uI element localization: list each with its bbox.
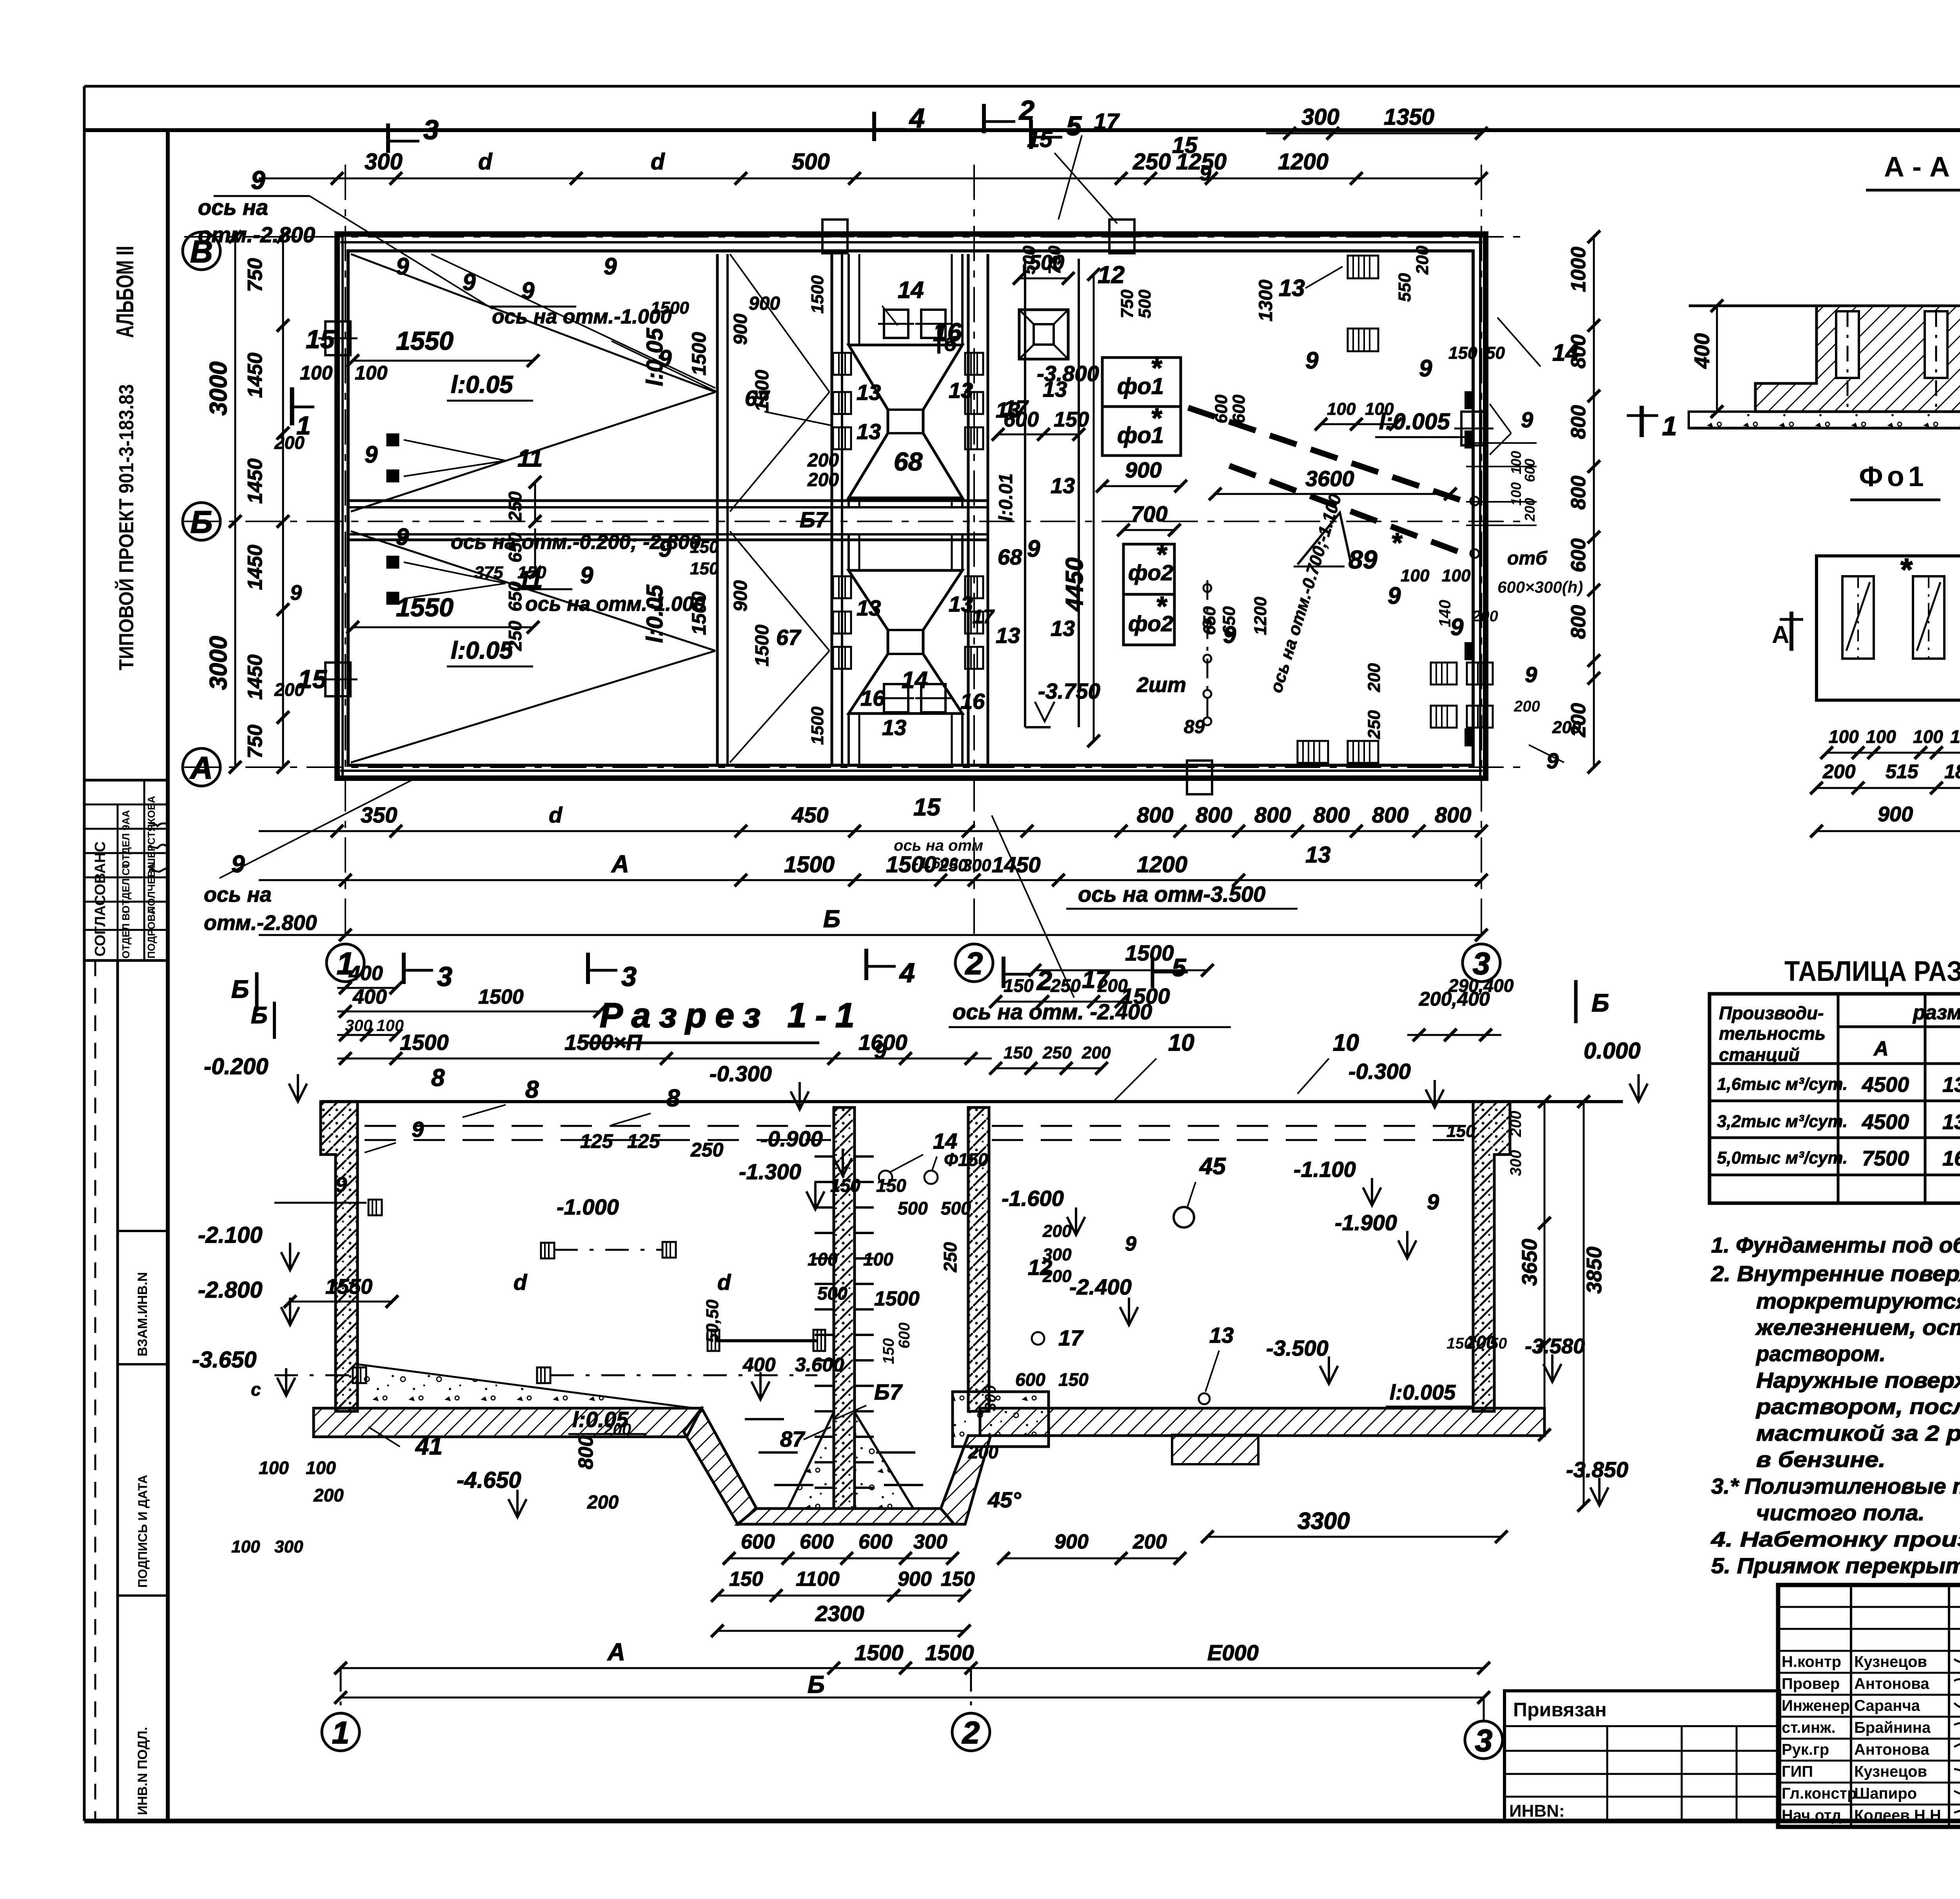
svg-text:13: 13 [1051, 616, 1075, 641]
svg-text:9: 9 [335, 1173, 347, 1196]
svg-text:1000: 1000 [1567, 247, 1590, 292]
svg-text:1500: 1500 [478, 986, 524, 1008]
detail Fo1 body [1817, 556, 1960, 700]
plan middle wall axis B [348, 499, 988, 502]
svg-text:1600: 1600 [858, 1030, 907, 1055]
svg-text:650: 650 [1220, 606, 1239, 635]
sheet top border line 1 [84, 85, 1960, 88]
svg-text:1500×П: 1500×П [564, 1030, 642, 1055]
svg-text:600: 600 [1522, 459, 1538, 482]
svg-text:600: 600 [741, 1530, 775, 1553]
svg-text:ПОДПИСЬ И ДАТА: ПОДПИСЬ И ДАТА [136, 1475, 150, 1588]
plan funnel inner verticals [858, 254, 860, 345]
svg-text:1500: 1500 [925, 1640, 974, 1665]
svg-text:150: 150 [941, 1568, 975, 1590]
svg-text:1500: 1500 [886, 852, 936, 877]
svg-text:13: 13 [1209, 1323, 1234, 1347]
svg-text:200: 200 [1132, 1530, 1167, 1553]
svg-text:Нач.отд: Нач.отд [1782, 1807, 1841, 1824]
svg-text:13: 13 [1279, 275, 1305, 301]
svg-text:7500: 7500 [1862, 1147, 1909, 1170]
svg-text:1500: 1500 [1121, 984, 1170, 1008]
svg-text:200: 200 [1042, 1267, 1072, 1286]
privyazan strip [1504, 1691, 1780, 1821]
svg-text:Б: Б [808, 1671, 825, 1698]
svg-text:ст.инж.: ст.инж. [1782, 1719, 1836, 1736]
svg-text:4450: 4450 [1061, 557, 1088, 612]
svg-text:250: 250 [940, 1242, 960, 1273]
svg-text:13500: 13500 [1942, 1110, 1960, 1134]
plan 250 650 vertical chain [534, 482, 536, 521]
svg-text:8: 8 [431, 1064, 445, 1091]
svg-text:200: 200 [587, 1492, 619, 1513]
svg-text:67: 67 [776, 625, 802, 650]
svg-text:89: 89 [1184, 717, 1205, 737]
svg-text:600: 600 [896, 1322, 913, 1349]
svg-text:9: 9 [521, 278, 535, 304]
svg-text:200: 200 [1097, 975, 1128, 996]
title block left grid verticals [1850, 1585, 1852, 1827]
svg-text:900: 900 [1125, 458, 1161, 482]
section central wall hatched [834, 1107, 855, 1509]
svg-text:*: * [1151, 403, 1162, 433]
svg-text:150: 150 [1058, 1369, 1089, 1390]
svg-text:16: 16 [860, 686, 885, 710]
svg-text:900: 900 [730, 314, 751, 345]
svg-text:550: 550 [1395, 273, 1414, 302]
plan axis line 3 vertical [1481, 165, 1482, 944]
svg-text:1450: 1450 [244, 654, 267, 700]
svg-text:ОТДЕЛ ВГ: ОТДЕЛ ВГ [120, 907, 132, 959]
svg-text:14: 14 [1552, 339, 1579, 366]
plan wall band inner emphasis lines [341, 235, 344, 777]
svg-text:Е000: Е000 [1207, 1640, 1259, 1665]
plan small squares 11 lower [387, 557, 398, 568]
svg-text:торкретируются на толщину 25мм: торкретируются на толщину 25мм, за два р… [1756, 1289, 1960, 1313]
plan outer wall rectangle [337, 234, 1486, 778]
svg-text:1500: 1500 [808, 275, 827, 314]
svg-text:11: 11 [517, 445, 543, 472]
svg-text:13: 13 [949, 592, 973, 616]
svg-text:Фо1: Фо1 [1859, 461, 1927, 492]
svg-text:100: 100 [1913, 726, 1943, 747]
plan right side dim chain 800s [1593, 237, 1595, 767]
svg-text:50: 50 [1490, 1335, 1507, 1352]
svg-text:5. Приямок перекрыть щитом (по: 5. Приямок перекрыть щитом (поз. 18). [1711, 1553, 1960, 1578]
svg-text:150: 150 [729, 1568, 763, 1590]
svg-text:ПОДРОВА: ПОДРОВА [145, 907, 157, 959]
svg-text:200: 200 [603, 1420, 631, 1438]
svg-text:-3.580: -3.580 [1525, 1334, 1585, 1358]
svg-text:Колеев Н.Н: Колеев Н.Н [1854, 1807, 1941, 1824]
svg-text:3300: 3300 [1298, 1508, 1350, 1534]
svg-text:150: 150 [1446, 1335, 1473, 1352]
svg-text:чистого пола.: чистого пола. [1756, 1500, 1925, 1525]
svg-text:13: 13 [857, 595, 881, 620]
plan dim 1550 lower room [353, 626, 533, 628]
svg-text:16: 16 [933, 318, 962, 347]
svg-text:Провер: Провер [1782, 1675, 1840, 1692]
svg-text:4: 4 [899, 957, 915, 988]
svg-text:750: 750 [1045, 245, 1064, 274]
plan internal wall x1830 [716, 254, 719, 764]
svg-text:0.000: 0.000 [1584, 1038, 1641, 1064]
svg-text:1550: 1550 [325, 1275, 372, 1298]
svg-text:1550: 1550 [396, 326, 454, 355]
svg-text:1500: 1500 [784, 852, 835, 877]
svg-text:4. Набетонку производить после: 4. Набетонку производить после монтажа с… [1711, 1528, 1960, 1551]
svg-text:1450: 1450 [992, 852, 1041, 877]
plan axis line B horizontal [184, 521, 1529, 522]
plan dashed pipe run 89 line 2 [1229, 466, 1463, 554]
svg-text:800: 800 [1435, 802, 1471, 827]
svg-text:185: 185 [1944, 761, 1960, 782]
svg-text:100: 100 [306, 1458, 336, 1478]
svg-text:1: 1 [332, 1715, 350, 1750]
plan internal wall axis2 x2470 [967, 254, 970, 764]
svg-text:Б: Б [191, 505, 213, 539]
svg-text:-0.300: -0.300 [710, 1061, 772, 1086]
svg-text:100: 100 [300, 362, 333, 384]
svg-text:800: 800 [1372, 802, 1408, 827]
plan section flag b at funnel [937, 326, 940, 354]
svg-text:9: 9 [580, 562, 593, 588]
svg-text:450: 450 [791, 802, 828, 827]
svg-text:200: 200 [1042, 1222, 1072, 1241]
svg-text:13500: 13500 [1942, 1073, 1960, 1097]
svg-text:900: 900 [1054, 1530, 1089, 1553]
svg-text:13: 13 [857, 419, 881, 444]
plan section cut mark 1 left [290, 387, 294, 425]
plan upper funnel hopper [849, 345, 962, 498]
svg-text:100: 100 [1866, 726, 1896, 747]
plan upper room slope diagonals [351, 254, 715, 392]
svg-text:9: 9 [1200, 162, 1211, 185]
plan vertical dim 4450 inside right room [1093, 274, 1095, 741]
svg-text:12: 12 [1098, 261, 1125, 289]
plan lower funnel hopper [849, 570, 962, 713]
svg-text:4500: 4500 [1862, 1073, 1909, 1097]
plan bottom dim chain row3 [259, 934, 1481, 936]
sidebar approval signatures [149, 823, 166, 826]
plan bottom section marks [402, 953, 406, 984]
svg-text:1350: 1350 [1384, 104, 1434, 130]
svg-text:фо2: фо2 [1128, 560, 1173, 585]
svg-text:13: 13 [996, 623, 1020, 648]
svg-text:1500: 1500 [651, 298, 689, 318]
svg-text:1500: 1500 [808, 706, 827, 745]
svg-text:1500: 1500 [1125, 940, 1174, 965]
svg-text:200: 200 [1365, 663, 1384, 692]
svg-text:100: 100 [863, 1249, 893, 1269]
section floor slab right band [980, 1408, 1544, 1436]
svg-text:l:0.05: l:0.05 [451, 371, 514, 398]
svg-text:750: 750 [1118, 289, 1137, 318]
svg-text:9: 9 [604, 253, 617, 280]
section bolt left pair [368, 1200, 382, 1215]
plan inner wall face rectangle [348, 251, 1473, 765]
svg-text:290,400: 290,400 [1448, 975, 1514, 996]
svg-text:в бензине.: в бензине. [1756, 1447, 1886, 1472]
svg-text:ИНВ.N ПОДЛ.: ИНВ.N ПОДЛ. [135, 1727, 150, 1815]
svg-text:1500: 1500 [752, 625, 773, 666]
svg-text:ВЗАМ.ИНВ.N: ВЗАМ.ИНВ.N [135, 1272, 150, 1356]
svg-text:8: 8 [666, 1085, 680, 1112]
svg-text:А: А [1873, 1037, 1889, 1060]
svg-text:9: 9 [1525, 662, 1537, 687]
svg-text:9: 9 [1125, 1233, 1136, 1255]
svg-text:3: 3 [1475, 1723, 1493, 1758]
svg-text:тельность: тельность [1719, 1023, 1826, 1044]
svg-text:1450: 1450 [244, 458, 267, 504]
sheet outer border left [83, 86, 86, 1821]
svg-text:9: 9 [290, 581, 302, 605]
svg-text:9: 9 [1027, 536, 1040, 562]
svg-text:700: 700 [1131, 501, 1167, 526]
svg-text:350: 350 [361, 802, 397, 827]
svg-text:200: 200 [1413, 245, 1432, 275]
svg-text:-1.300: -1.300 [739, 1159, 801, 1184]
svg-text:140: 140 [1436, 600, 1454, 627]
section top dim chain [337, 1058, 992, 1060]
svg-text:*: * [1391, 527, 1403, 558]
svg-text:-2.100: -2.100 [198, 1222, 262, 1248]
svg-text:200: 200 [1514, 698, 1540, 715]
svg-text:9: 9 [1427, 1189, 1439, 1214]
svg-text:Н.контр: Н.контр [1782, 1653, 1841, 1670]
svg-text:-1.000: -1.000 [557, 1195, 619, 1219]
plan wall clamp elements 15 [325, 321, 350, 355]
svg-text:А: А [611, 851, 629, 878]
svg-text:раствором, после чего окрашива: раствором, после чего окрашиваются горяч… [1755, 1394, 1960, 1419]
svg-text:3000: 3000 [205, 636, 232, 690]
svg-text:9: 9 [231, 851, 245, 878]
svg-text:Б7: Б7 [800, 507, 829, 532]
section pit right slope [941, 1436, 991, 1524]
svg-text:13: 13 [857, 380, 881, 405]
svg-text:600×300(h): 600×300(h) [1497, 578, 1583, 596]
plan funnel clamps 14 [884, 310, 908, 338]
svg-text:600: 600 [1567, 538, 1590, 572]
plan foundation Fo1 rectangles [1102, 358, 1181, 407]
svg-text:67: 67 [745, 386, 770, 410]
svg-text:13: 13 [882, 715, 906, 740]
svg-text:*: * [1151, 352, 1162, 383]
section bolt mid [541, 1243, 554, 1258]
svg-text:отб: отб [1507, 548, 1548, 569]
svg-text:3.* Полиэтиленовые трубы (поз.: 3.* Полиэтиленовые трубы (поз. 89) залож… [1711, 1474, 1960, 1498]
detail Fo1 slot right [1913, 576, 1944, 659]
svg-text:300: 300 [274, 1537, 303, 1556]
title block left grid horizontals [1778, 1606, 1960, 1608]
svg-text:железнением, остальные затираю: железнением, остальные затираются цемент… [1755, 1315, 1960, 1340]
svg-text:АЛЬБОМ II: АЛЬБОМ II [112, 246, 139, 338]
svg-text:500: 500 [817, 1283, 848, 1304]
svg-text:1100: 1100 [796, 1568, 840, 1590]
detail Fo1 slot left [1842, 576, 1874, 659]
svg-text:-4.650: -4.650 [457, 1467, 521, 1493]
svg-text:250: 250 [1132, 149, 1171, 174]
svg-text:*: * [1899, 552, 1913, 587]
svg-text:ось на: ось на [204, 883, 272, 906]
svg-text:800: 800 [1567, 405, 1590, 439]
svg-text:Привязан: Привязан [1513, 1699, 1607, 1721]
svg-text:5,0тыс м³/сут.: 5,0тыс м³/сут. [1717, 1148, 1847, 1167]
plan top section marks [386, 123, 390, 153]
svg-text:200: 200 [968, 1442, 998, 1462]
plan top dimension chain right [1266, 133, 1481, 134]
detail A-A anchor slot 2 [1925, 311, 1947, 378]
svg-text:9: 9 [251, 165, 265, 194]
section axis2 wall hatched [968, 1107, 989, 1411]
svg-text:2: 2 [962, 1715, 980, 1750]
svg-text:150: 150 [1446, 1122, 1475, 1141]
svg-text:1: 1 [1662, 411, 1677, 441]
plan left dim chain 3000 [234, 237, 236, 767]
svg-text:17: 17 [1094, 109, 1120, 134]
section right wall hatched [1473, 1102, 1510, 1411]
svg-text:с: с [251, 1379, 261, 1400]
svg-text:Саранча: Саранча [1854, 1697, 1920, 1714]
svg-text:3: 3 [621, 961, 637, 992]
svg-text:станций: станций [1719, 1044, 1800, 1065]
plan axis circle V [183, 232, 220, 270]
svg-text:500: 500 [792, 149, 830, 174]
svg-text:9: 9 [1521, 407, 1533, 432]
svg-text:отм.-2.800: отм.-2.800 [198, 222, 315, 247]
section tie rod [717, 1339, 817, 1342]
svg-text:16500: 16500 [1942, 1147, 1960, 1170]
svg-text:150: 150 [690, 559, 719, 578]
svg-text:400: 400 [348, 962, 383, 985]
section pit buttress left concrete [788, 1412, 834, 1509]
plan dim 600 150 row [998, 434, 1079, 436]
svg-text:100: 100 [376, 1016, 404, 1035]
detail A-A top line [1689, 305, 1960, 307]
svg-text:600: 600 [1015, 1369, 1045, 1390]
svg-text:9: 9 [659, 536, 672, 562]
svg-text:50,50: 50,50 [703, 1299, 722, 1343]
svg-text:16: 16 [960, 689, 985, 713]
plan small squares 11 upper [387, 434, 398, 445]
plan formwork panels at funnels [833, 353, 851, 375]
svg-text:100: 100 [1442, 566, 1471, 585]
plan left dim chain 750-1450 [282, 237, 284, 767]
plan axis circle A [183, 748, 220, 786]
plan stair stripes right area [1431, 663, 1457, 684]
svg-text:515: 515 [1886, 761, 1919, 782]
plan funnel chamber diagonals lower [730, 531, 829, 651]
svg-text:150: 150 [517, 563, 546, 582]
svg-text:50: 50 [1486, 343, 1505, 363]
sheet bottom frame line [84, 1819, 1960, 1823]
svg-text:1200: 1200 [1251, 597, 1270, 635]
svg-text:500: 500 [898, 1198, 928, 1218]
svg-text:750: 750 [244, 724, 267, 759]
svg-text:200: 200 [1552, 718, 1581, 737]
svg-text:Производи-: Производи- [1719, 1003, 1824, 1023]
svg-text:Рук.гр: Рук.гр [1782, 1741, 1829, 1758]
svg-text:900: 900 [730, 580, 751, 612]
svg-text:1. Фундаменты под оборудование: 1. Фундаменты под оборудование выполнять… [1711, 1233, 1960, 1257]
svg-text:-3.750: -3.750 [1038, 679, 1100, 703]
plan bottom dim chain row1 [259, 830, 1481, 832]
svg-text:1500: 1500 [874, 1287, 920, 1310]
svg-text:Б: Б [231, 975, 249, 1003]
svg-text:100: 100 [259, 1458, 289, 1478]
svg-text:150: 150 [876, 1175, 906, 1196]
svg-text:-2.400: -2.400 [1069, 1274, 1132, 1299]
plan axis line 2 vertical [973, 165, 975, 944]
svg-text:300: 300 [913, 1530, 947, 1553]
plan dim 1550 upper room [353, 360, 533, 362]
svg-text:2. Внутренние поверхности стен: 2. Внутренние поверхности стен, соприкас… [1711, 1261, 1960, 1286]
svg-text:А: А [189, 750, 213, 785]
plan small leader lines [404, 440, 506, 461]
svg-text:800: 800 [1137, 802, 1173, 827]
svg-text:600: 600 [1212, 394, 1231, 423]
svg-text:3: 3 [423, 114, 439, 145]
svg-text:ШЕРСТЯКОВА: ШЕРСТЯКОВА [145, 796, 157, 868]
svg-text:размеры: размеры [1912, 1001, 1960, 1024]
svg-text:17: 17 [1004, 396, 1029, 420]
svg-text:Ф150: Ф150 [944, 1149, 988, 1170]
svg-text:2300: 2300 [815, 1601, 864, 1626]
svg-text:9: 9 [1546, 748, 1559, 773]
svg-text:200: 200 [1082, 1043, 1111, 1062]
svg-text:А - А: А - А [1884, 151, 1950, 183]
section pit left slope [684, 1408, 757, 1524]
svg-text:9: 9 [659, 345, 672, 372]
svg-text:250: 250 [690, 1139, 724, 1161]
svg-text:150: 150 [880, 1338, 897, 1364]
detail A-A pedestal hatched [1755, 306, 1960, 412]
svg-text:d: d [478, 149, 493, 174]
svg-text:СОГЛАСОВАНС: СОГЛАСОВАНС [92, 841, 109, 957]
svg-text:-0.900: -0.900 [760, 1126, 823, 1151]
svg-text:2: 2 [965, 946, 983, 981]
svg-text:250: 250 [1042, 1043, 1072, 1062]
svg-text:600: 600 [800, 1530, 834, 1553]
plan axis line 1 vertical [345, 165, 346, 944]
detail A-A base slab speckled [1689, 412, 1960, 428]
svg-text:-2.800: -2.800 [198, 1277, 262, 1303]
svg-text:3850: 3850 [1583, 1247, 1606, 1294]
svg-text:125: 125 [627, 1130, 661, 1152]
svg-text:300: 300 [982, 1385, 999, 1411]
svg-text:125: 125 [580, 1130, 613, 1152]
svg-text:1300: 1300 [1256, 280, 1276, 321]
svg-text:-1.900: -1.900 [1335, 1210, 1397, 1235]
svg-text:400: 400 [742, 1354, 776, 1376]
svg-text:-3.500: -3.500 [1266, 1336, 1328, 1360]
svg-text:9: 9 [396, 524, 409, 550]
section rebar dowels pit slopes [759, 1451, 798, 1454]
section bottom dim chains [729, 1558, 953, 1560]
svg-text:300: 300 [365, 149, 403, 174]
sidebar approval table [84, 780, 168, 960]
svg-text:150: 150 [690, 537, 719, 557]
svg-text:2шт: 2шт [1136, 673, 1186, 697]
svg-text:400: 400 [1690, 333, 1714, 369]
plan axis line V horizontal [184, 236, 1529, 238]
svg-text:Разрез 1-1: Разрез 1-1 [600, 996, 863, 1035]
svg-text:4500: 4500 [1862, 1110, 1909, 1134]
plan stair stripes top wall [1348, 256, 1378, 278]
svg-text:*: * [1156, 591, 1167, 621]
svg-text:l:0.01: l:0.01 [996, 473, 1016, 521]
svg-text:600: 600 [858, 1530, 893, 1553]
